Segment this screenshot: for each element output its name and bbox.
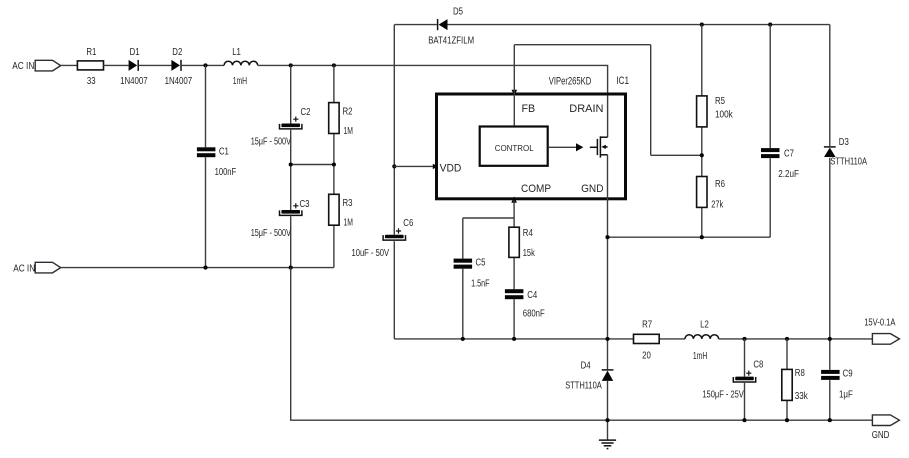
- wire: return drop and bottom ground rail: [291, 268, 873, 421]
- svg-text:D4: D4: [581, 360, 591, 371]
- wire: top feedback/bias rail: [394, 24, 830, 26]
- svg-text:R5: R5: [715, 96, 725, 107]
- node: C2/C3 midpoint: [289, 162, 293, 166]
- capacitor C3 (electrolytic): [251, 199, 310, 239]
- node: R2 tap: [332, 63, 336, 67]
- svg-text:680nF: 680nF: [523, 309, 545, 320]
- diode D1: [120, 47, 148, 87]
- capacitor C8 (electrolytic): [702, 360, 763, 401]
- wire: R5/R6 divider branch: [701, 25, 703, 238]
- connector AC IN (top input): [12, 60, 60, 72]
- capacitor C1: [197, 146, 236, 178]
- diode D3: [824, 137, 868, 168]
- svg-text:GND: GND: [872, 430, 890, 441]
- svg-text:1mH: 1mH: [693, 351, 707, 362]
- connector AC IN (bottom input): [13, 262, 61, 274]
- svg-text:STTH110A: STTH110A: [565, 381, 602, 392]
- wire: C8 branch: [744, 339, 746, 420]
- node: divider midpoint: [700, 153, 704, 157]
- resistor R1: [77, 47, 103, 87]
- node: C3 bottom / return drop: [289, 266, 293, 270]
- svg-text:15V-0.1A: 15V-0.1A: [864, 318, 896, 329]
- node: ground rail at D4: [605, 418, 609, 422]
- wire: FB net (up over to divider): [514, 45, 702, 156]
- svg-text:R8: R8: [795, 368, 805, 379]
- wire: COMP pin net and R4/C4 branch: [513, 200, 515, 339]
- diode D5: [428, 6, 474, 46]
- wire: D2 to L1: [182, 64, 224, 66]
- transistor Q1 (internal MOSFET): [590, 136, 608, 157]
- svg-text:150μF - 25V: 150μF - 25V: [702, 390, 744, 401]
- svg-text:BAT41ZFILM: BAT41ZFILM: [428, 35, 474, 46]
- svg-text:C1: C1: [219, 146, 229, 157]
- capacitor C7: [761, 148, 799, 180]
- capacitor C2 (electrolytic): [251, 107, 311, 147]
- svg-text:L1: L1: [232, 47, 241, 58]
- node: C5 on output rail: [461, 337, 465, 341]
- connector GND output: [872, 415, 900, 441]
- wire: AC IN to R1: [61, 64, 78, 66]
- svg-text:33: 33: [87, 76, 96, 87]
- capacitor C6 (electrolytic): [352, 218, 414, 259]
- wire: R8 branch: [786, 339, 788, 420]
- svg-text:C2: C2: [301, 107, 311, 118]
- svg-text:15μF - 500V: 15μF - 500V: [251, 136, 292, 147]
- resistor R4: [509, 227, 535, 259]
- svg-text:R2: R2: [343, 107, 353, 118]
- node: R2/R3 midpoint: [332, 162, 336, 166]
- node: C4 on output rail: [512, 337, 516, 341]
- wire: lower AC input rail: [61, 267, 334, 269]
- node: C8 bottom on ground rail: [742, 418, 746, 422]
- wire: output rail (mid): [394, 338, 872, 340]
- node: C1 bottom on lower rail: [203, 266, 207, 270]
- wire: C7 top lead: [769, 25, 771, 149]
- svg-text:C3: C3: [300, 199, 310, 210]
- svg-text:C4: C4: [527, 290, 537, 301]
- wire: C1 branch: [205, 65, 207, 267]
- svg-text:R4: R4: [523, 228, 533, 239]
- svg-text:R6: R6: [715, 179, 725, 190]
- svg-text:C6: C6: [403, 218, 413, 229]
- wire: R1 to D1: [104, 64, 129, 66]
- svg-text:1M: 1M: [344, 218, 354, 229]
- svg-text:IC1: IC1: [616, 75, 629, 87]
- CONTROL block: [480, 127, 548, 166]
- svg-text:FB: FB: [522, 103, 536, 115]
- svg-text:COMP: COMP: [521, 183, 551, 195]
- svg-text:1μF: 1μF: [839, 390, 853, 401]
- node: C2 tap: [289, 63, 293, 67]
- ground (earth symbol): [599, 440, 616, 449]
- resistor R2: [329, 103, 353, 137]
- diode D4: [565, 360, 613, 391]
- svg-text:AC IN: AC IN: [12, 61, 34, 72]
- wire: D3 branch (top rail down through D3, C9 to ground rail): [829, 25, 831, 421]
- resistor R8: [782, 368, 808, 402]
- IC U1 ViPer265KD outline: [437, 75, 626, 199]
- pin arrow VDD (into IC): [433, 164, 438, 169]
- node: C8 tap on output rail: [742, 337, 746, 341]
- wire: R2/R3 branch: [333, 65, 335, 267]
- node: C1 tap on input rail: [203, 63, 207, 67]
- connector 15V-0.1A output: [864, 318, 899, 345]
- svg-text:CONTROL: CONTROL: [495, 143, 534, 153]
- svg-text:20: 20: [642, 351, 651, 362]
- node: C9 bottom on ground rail: [828, 418, 832, 422]
- svg-text:R3: R3: [343, 198, 353, 209]
- svg-text:15k: 15k: [523, 248, 535, 259]
- svg-text:100nF: 100nF: [215, 167, 237, 178]
- svg-text:27k: 27k: [711, 199, 723, 210]
- svg-text:L2: L2: [700, 320, 709, 331]
- svg-text:D2: D2: [172, 47, 182, 58]
- svg-text:GND: GND: [581, 183, 603, 195]
- wire: D1 to D2: [139, 64, 171, 66]
- svg-text:1N4007: 1N4007: [120, 76, 148, 87]
- wire: COMP to C5 link: [463, 218, 514, 339]
- node: R5 top tap: [700, 23, 704, 27]
- svg-text:1mH: 1mH: [233, 76, 247, 87]
- svg-text:C9: C9: [843, 369, 853, 380]
- svg-text:VIPer265KD: VIPer265KD: [549, 75, 591, 87]
- node: GND pin junction: [605, 235, 609, 239]
- svg-text:33k: 33k: [795, 391, 808, 402]
- pin arrow FB (into IC): [512, 90, 518, 96]
- resistor R5: [697, 96, 733, 127]
- svg-text:C7: C7: [784, 149, 794, 160]
- svg-text:100k: 100k: [715, 110, 733, 121]
- capacitor C4: [505, 289, 545, 319]
- wire: VDD pin: [394, 165, 435, 167]
- svg-text:1N4007: 1N4007: [165, 76, 193, 87]
- wire: control output arrow to gate: [549, 143, 584, 151]
- svg-text:D5: D5: [453, 6, 463, 17]
- svg-text:C8: C8: [753, 360, 763, 371]
- node: D4 / GND line on output rail: [605, 337, 609, 341]
- capacitor C9: [821, 369, 853, 401]
- svg-text:1.5nF: 1.5nF: [471, 279, 490, 290]
- svg-text:DRAIN: DRAIN: [569, 103, 603, 115]
- svg-text:R7: R7: [642, 320, 652, 331]
- resistor R7: [634, 320, 660, 362]
- svg-text:D1: D1: [130, 47, 140, 58]
- node: VDD tap: [392, 164, 396, 168]
- inductor L1: [224, 47, 258, 87]
- resistor R3: [329, 194, 353, 228]
- svg-text:1M: 1M: [344, 126, 354, 137]
- node: C7 top tap: [768, 23, 772, 27]
- svg-text:15μF - 500V: 15μF - 500V: [251, 228, 292, 239]
- wire: L1 to DRAIN drop: [258, 65, 608, 137]
- svg-text:D3: D3: [839, 137, 849, 148]
- resistor R6: [697, 177, 725, 211]
- wire: IC GND / source net down and to C7: [608, 155, 771, 440]
- node: C9/D3 tap on output rail: [828, 337, 832, 341]
- svg-text:VDD: VDD: [440, 162, 462, 174]
- svg-text:C5: C5: [476, 258, 486, 269]
- node: GND net at R6 bottom: [700, 235, 704, 239]
- svg-text:2.2uF: 2.2uF: [778, 169, 799, 180]
- pin arrow COMP (into IC): [511, 196, 517, 202]
- node: R8 bottom on ground rail: [785, 418, 789, 422]
- svg-text:STTH110A: STTH110A: [830, 157, 867, 168]
- capacitor C5: [454, 258, 490, 290]
- wire: left vertical bus (VDD supply): [393, 25, 395, 339]
- diode D2: [165, 47, 193, 87]
- svg-text:R1: R1: [86, 47, 96, 58]
- svg-text:10uF - 50V: 10uF - 50V: [352, 248, 390, 259]
- wire: C2-C3 / R2-R3 midpoint link: [291, 164, 334, 166]
- svg-text:AC IN: AC IN: [13, 263, 35, 274]
- inductor L2: [685, 320, 719, 363]
- wire: C2/C3 branch: [290, 65, 292, 267]
- node: R8 tap on output rail: [785, 337, 789, 341]
